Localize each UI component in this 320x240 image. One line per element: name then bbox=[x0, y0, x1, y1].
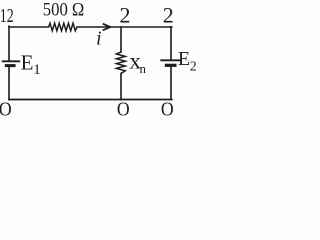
svg-text:i: i bbox=[96, 28, 102, 50]
node label 2 (right) bbox=[163, 2, 174, 27]
node label O middle bbox=[117, 99, 130, 121]
wire left vertical bbox=[8, 26, 10, 60]
svg-text:O: O bbox=[0, 99, 12, 119]
current label i bbox=[96, 28, 102, 50]
current arrow i bbox=[103, 24, 111, 31]
svg-text:2: 2 bbox=[163, 2, 174, 27]
wire right vertical lower bbox=[170, 67, 172, 100]
node label O right bbox=[161, 99, 174, 121]
label E2 bbox=[178, 48, 197, 74]
svg-text:n: n bbox=[140, 61, 147, 76]
value label 500 ohm bbox=[43, 1, 85, 21]
svg-text:1: 1 bbox=[33, 62, 41, 78]
resistor xn zigzag bbox=[116, 52, 125, 74]
battery E2 plates bbox=[160, 60, 181, 65]
svg-text:2: 2 bbox=[120, 3, 131, 28]
wire top-right segment bbox=[77, 26, 172, 28]
svg-text:2: 2 bbox=[190, 60, 197, 75]
svg-text:O: O bbox=[161, 99, 174, 119]
svg-text:E: E bbox=[21, 51, 34, 75]
wire right vertical upper bbox=[170, 27, 172, 60]
svg-text:500 Ω: 500 Ω bbox=[43, 1, 85, 21]
wire top-left segment bbox=[9, 26, 49, 28]
svg-text:E: E bbox=[178, 48, 190, 70]
label E1 bbox=[21, 51, 41, 79]
svg-text:O: O bbox=[117, 99, 130, 119]
wire middle vertical upper bbox=[120, 27, 122, 52]
battery E1 plates bbox=[2, 61, 20, 65]
wire middle vertical lower bbox=[120, 74, 122, 100]
node label 12 bbox=[0, 5, 14, 27]
resistor R 500 ohm bbox=[49, 23, 78, 31]
svg-text:12: 12 bbox=[0, 5, 14, 27]
node label 2 (middle) bbox=[120, 3, 131, 28]
label xn bbox=[129, 49, 146, 77]
wire left vertical lower bbox=[8, 67, 10, 99]
node label O left bbox=[0, 99, 12, 121]
wire bottom bbox=[9, 99, 172, 101]
